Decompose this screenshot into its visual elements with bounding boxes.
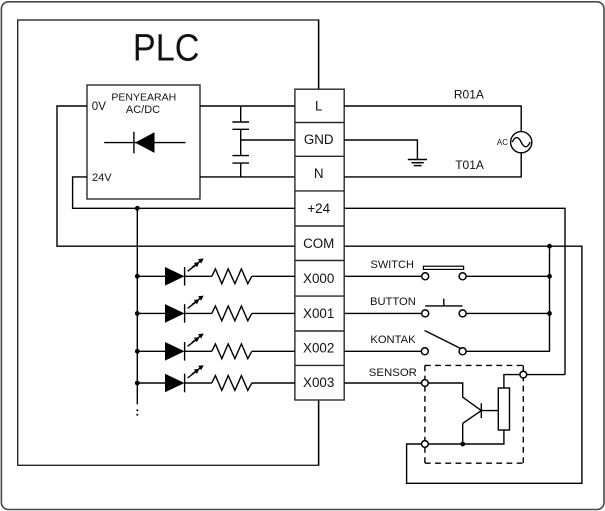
node emitter junction (460, 442, 465, 447)
wire N to AC source (344, 153, 521, 177)
LED DX001 (165, 296, 204, 323)
AC source V1 (511, 132, 532, 153)
LED DX003 (165, 365, 204, 392)
wire switch to return bus (466, 275, 549, 277)
wire 24V output: left, down, right to +24 terminal (73, 177, 295, 208)
svg-text:24V: 24V (92, 172, 112, 184)
svg-text:X003: X003 (303, 375, 334, 390)
wire X001 to button (344, 312, 422, 314)
capacitor C2 (232, 156, 249, 177)
sensor terminal circle +V (520, 371, 527, 378)
wire L: rectifier right to L terminal (200, 105, 295, 107)
sensor terminal circle input (422, 380, 429, 387)
wire N: rectifier right to N terminal (200, 176, 295, 178)
PLC enclosure box (18, 20, 319, 465)
wire +24 to right bus (344, 208, 565, 374)
svg-text:PLC: PLC (133, 28, 200, 70)
svg-text:N: N (314, 166, 324, 181)
wire X003 to sensor (344, 382, 422, 384)
resistor RX000 (212, 269, 252, 284)
resistor RX002 (212, 344, 252, 359)
svg-text:+24: +24 (307, 201, 330, 216)
wire button to return bus (466, 312, 549, 314)
node LED bus junction X000 (135, 274, 140, 279)
wire LED to resistor X001 (185, 312, 212, 314)
terminal strip body (295, 89, 344, 400)
capacitor C1 (232, 106, 249, 156)
svg-text:X000: X000 (303, 271, 334, 286)
node LED bus junction X003 (135, 381, 140, 386)
wire COM to sensor return bus (344, 246, 582, 483)
node LED bus junction X001 (135, 311, 140, 316)
resistor RX001 (212, 306, 252, 321)
svg-text:R01A: R01A (454, 88, 484, 102)
node button return junction (547, 311, 552, 316)
diode D1 (104, 132, 185, 154)
wire resistor to terminal X001 (252, 312, 295, 314)
ground symbol (408, 160, 427, 166)
wire sensor +V circle to +24 bus (527, 374, 566, 376)
wire LED to resistor X003 (185, 382, 212, 384)
wire L to AC source (344, 106, 521, 132)
svg-text:COM: COM (303, 236, 334, 251)
svg-text:PENYEARAH: PENYEARAH (111, 92, 176, 104)
sensor dashed enclosure (425, 365, 523, 463)
resistor RX003 (212, 376, 252, 391)
svg-text:KONTAK: KONTAK (370, 334, 416, 346)
wire resistor to terminal X002 (252, 350, 295, 352)
wire resistor top to sensor +V (504, 375, 520, 388)
node switch return junction (547, 274, 552, 279)
wire bus to LED X002 (137, 350, 165, 352)
wire bus to LED X003 (137, 382, 165, 384)
transistor Q1 (463, 403, 499, 444)
contact S3 (421, 331, 466, 355)
svg-text:0V: 0V (92, 101, 106, 113)
wire 0V output: left and down to COM (57, 106, 295, 246)
wire resistor to terminal X003 (252, 382, 295, 384)
node LED bus junction X002 (135, 349, 140, 354)
LED DX000 (165, 259, 204, 286)
svg-text:X002: X002 (303, 341, 334, 356)
node COM junction (547, 244, 552, 249)
wire bus to LED X001 (137, 312, 165, 314)
wire resistor to terminal X000 (252, 275, 295, 277)
svg-text:X001: X001 (303, 306, 334, 321)
wire GND tap from capacitor midpoint to GND terminal (241, 139, 295, 141)
LED DX002 (165, 334, 204, 361)
svg-text:GND: GND (304, 132, 334, 147)
wire LED to resistor X002 (185, 350, 212, 352)
svg-text:SENSOR: SENSOR (369, 367, 417, 379)
wire resistor bottom to emitter rail (429, 430, 504, 444)
wire bus to LED X000 (137, 275, 165, 277)
LED supply bus (136, 208, 138, 404)
pushbutton S2 (422, 299, 466, 317)
svg-text:AC/DC: AC/DC (126, 104, 160, 116)
bus continuation dots (136, 409, 138, 416)
svg-text:T01A: T01A (455, 158, 484, 172)
switch S1 (422, 266, 466, 280)
svg-text:BUTTON: BUTTON (370, 296, 416, 308)
wire contact return bus (466, 246, 549, 351)
wire LED to resistor X000 (185, 275, 212, 277)
sensor terminal circle 0V (422, 441, 429, 448)
wire X002 to contact (344, 350, 421, 352)
wire terminal strip bottom to PLC box bottom (318, 400, 320, 465)
resistor R1 (sensor pull-up) (498, 388, 509, 430)
node +24 bus tap (135, 206, 140, 211)
wire sensor input to transistor base network (429, 383, 482, 411)
svg-text:AC: AC (497, 138, 508, 147)
wire X000 to switch (344, 275, 422, 277)
svg-text:SWITCH: SWITCH (371, 259, 414, 271)
svg-text:L: L (315, 99, 322, 114)
wire GND terminal to earth (344, 140, 417, 160)
rectifier U1 box PENYEARAH AC/DC (87, 85, 200, 199)
wire terminal strip top to PLC box top (318, 20, 320, 89)
